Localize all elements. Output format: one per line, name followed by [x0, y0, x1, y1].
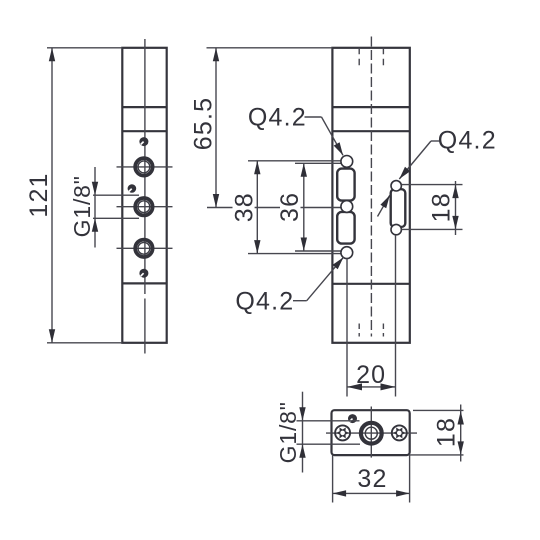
dimension 20 arrow right: [381, 383, 396, 390]
slot R (right column): [391, 189, 406, 227]
bottom view body: [332, 410, 410, 455]
bottom view vertical centerline: [370, 407, 372, 458]
side view left dashed centerline bottom: [358, 324, 360, 337]
pin hole bottom: [139, 269, 148, 278]
bottom port G1/8 (center): [361, 423, 382, 444]
side view right dashed centerline top: [382, 48, 384, 68]
bottom view horizontal centerline: [326, 432, 417, 434]
svg-text:38: 38: [231, 192, 259, 222]
dimension 18 bottom extension line bottom: [410, 454, 464, 456]
dimension G1/8 bottom line: [302, 392, 304, 473]
front view divider line 2: [122, 130, 166, 132]
dimension 32 arrow left: [333, 490, 347, 496]
dimension 65.5 extension line top: [207, 47, 333, 49]
side view body: [332, 48, 409, 343]
dimension 18 side extension line top: [402, 184, 463, 186]
label Q4.2 top dash: [305, 116, 322, 118]
svg-text:121: 121: [25, 172, 53, 217]
dimension 20 extension line left: [346, 259, 348, 397]
svg-text:G1/8": G1/8": [275, 401, 301, 463]
svg-text:18: 18: [433, 417, 461, 447]
dimension 38 line: [256, 161, 258, 254]
dimension 18 side arrow top: [452, 185, 458, 199]
dimension 65.5 line: [215, 48, 217, 208]
bottom pin hole: [348, 414, 357, 423]
dimension G1/8 front arrow bottom: [92, 218, 98, 232]
dimension 121 extension line bottom: [47, 342, 122, 344]
port P3 centerline: [117, 247, 173, 249]
dimension 18 bottom arrow bottom: [458, 441, 464, 455]
dimension G1/8 front arrow top: [92, 182, 98, 196]
dimension G1/8 front line: [94, 167, 96, 248]
label Q4.2 bottom dash: [293, 300, 307, 302]
side view left dashed centerline top: [358, 48, 360, 68]
label Q4.2 right dash: [431, 140, 440, 142]
dimension 65.5 extension line bottom: [207, 207, 341, 209]
dimension 121 arrow bottom: [49, 329, 55, 343]
dimension 18 side extension line bottom: [402, 228, 463, 230]
svg-text:G1/8": G1/8": [69, 175, 95, 237]
label Q4.2 bottom leader: [307, 257, 344, 301]
side view main dashed centerline: [370, 37, 372, 337]
hole Q4.2 top-left: [341, 156, 353, 168]
label Q4.2 right leader: [399, 141, 431, 179]
slot B (left column lower): [337, 212, 354, 244]
svg-text:65.5: 65.5: [190, 97, 218, 150]
label Q4.2 top arrowhead: [334, 142, 343, 155]
dimension 18 bottom line: [460, 405, 462, 462]
label Q4.2 top leader: [322, 117, 344, 155]
dimension 18 bottom arrow top: [458, 411, 464, 425]
dimension 32 line: [333, 492, 410, 494]
label Q4.2 right arrowhead: [399, 167, 410, 179]
dimension 38 arrow top: [254, 161, 260, 175]
svg-text:18: 18: [428, 192, 456, 222]
dimension 32 arrow right: [396, 490, 410, 496]
dimension 38 extension line bottom: [248, 253, 341, 255]
dimension 38 arrow bottom: [254, 240, 260, 254]
side view divider line 1: [332, 106, 409, 108]
dimension 36 arrow bottom: [301, 238, 307, 252]
front view divider line 3: [122, 282, 166, 284]
bottom torx screw left: [335, 425, 350, 440]
dimension G1/8 bottom extension line top: [297, 420, 360, 422]
dimension 36 extension line bottom: [295, 250, 342, 252]
dimension 32 extension line right: [409, 455, 411, 502]
dimension 20 line: [347, 386, 396, 388]
dimension 121 extension line top: [47, 47, 122, 49]
bottom torx screw right: [392, 425, 407, 440]
dimension 18 bottom extension line top: [413, 409, 464, 411]
dimension 36 extension line top: [295, 162, 341, 164]
dimension 121 line: [51, 48, 53, 343]
side view divider line 2: [332, 130, 409, 132]
port P2 (G1/8 threaded): [135, 198, 152, 215]
side view divider line 3: [332, 283, 409, 285]
side view right dashed centerline bottom: [382, 324, 384, 337]
dimension 36 arrow top: [301, 163, 307, 177]
svg-text:Q4.2: Q4.2: [438, 127, 497, 155]
slot A (left column upper): [337, 169, 354, 201]
dimension 121 arrow top: [49, 48, 55, 62]
port P3 (G1/8 threaded): [135, 240, 152, 257]
dimension 32 extension line left: [332, 455, 334, 502]
pin hole top: [139, 137, 148, 146]
dimension 38 extension line top: [248, 160, 341, 162]
port P2 centerline: [117, 206, 173, 208]
dimension G1/8 front extension line bottom: [93, 217, 139, 219]
dimension 18 side line: [455, 181, 457, 235]
svg-text:20: 20: [356, 361, 386, 389]
dimension 36 line: [303, 163, 305, 251]
hole bottom-right: [391, 224, 401, 234]
port P1 (G1/8 threaded): [135, 158, 152, 175]
svg-text:Q4.2: Q4.2: [248, 104, 307, 132]
front view vertical centerline: [144, 39, 146, 354]
dimension G1/8 bottom arrow top: [299, 407, 305, 421]
pin hole middle: [128, 184, 137, 193]
dimension 65.5 arrow top: [213, 48, 219, 62]
dimension 18 side arrow bottom: [452, 216, 458, 230]
front view divider line 1: [122, 106, 166, 108]
svg-text:Q4.2: Q4.2: [235, 287, 294, 315]
svg-text:32: 32: [357, 465, 387, 493]
slot R leader line: [378, 195, 390, 216]
hole Q4.2 top-right: [391, 181, 401, 191]
label Q4.2 bottom arrowhead: [333, 257, 344, 269]
hole Q4.2 bottom-left: [341, 247, 353, 259]
port P1 centerline: [117, 166, 173, 168]
dimension 65.5 arrow bottom: [213, 194, 219, 208]
dimension 20 extension line right: [395, 235, 397, 397]
dimension G1/8 bottom extension line bottom: [297, 443, 361, 445]
slot R leader arrowhead: [380, 195, 389, 208]
dimension 20 arrow left: [347, 383, 362, 390]
front view body: [122, 48, 166, 343]
svg-text:36: 36: [276, 192, 304, 222]
hole middle-left: [341, 201, 353, 213]
dimension G1/8 front extension line top: [93, 194, 139, 196]
dimension G1/8 bottom arrow bottom: [299, 444, 305, 458]
